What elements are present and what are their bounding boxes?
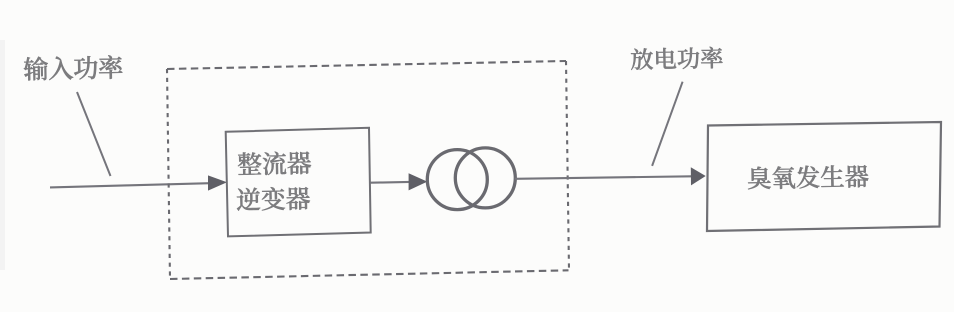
block: 整流器/逆变器 (rectifier/inverter) bbox=[226, 128, 371, 237]
wire: transformer to ozone generator bbox=[515, 176, 692, 179]
wire: input power line bbox=[50, 183, 210, 187]
arrowhead into ozone generator bbox=[691, 167, 706, 185]
transformer T (secondary winding) bbox=[455, 148, 515, 208]
text 臭氧发生器 bbox=[748, 164, 869, 189]
scan streak (left edge) bbox=[0, 40, 5, 270]
arrowhead into transformer bbox=[409, 173, 428, 190]
leader line (输入功率) bbox=[77, 92, 111, 176]
dashed enclosure box bbox=[167, 61, 569, 279]
transformer T (primary winding) bbox=[427, 150, 487, 210]
text 逆变器 bbox=[237, 186, 311, 211]
text 整流器 bbox=[238, 151, 312, 176]
label "放电功率" (discharge power) bbox=[631, 47, 723, 70]
wire: block to transformer bbox=[371, 181, 411, 184]
label "输入功率" (input power) bbox=[24, 55, 123, 81]
block: 臭氧发生器 (ozone generator) bbox=[707, 122, 941, 231]
arrowhead into rectifier/inverter block bbox=[208, 175, 227, 190]
leader line (放电功率) bbox=[652, 82, 683, 166]
